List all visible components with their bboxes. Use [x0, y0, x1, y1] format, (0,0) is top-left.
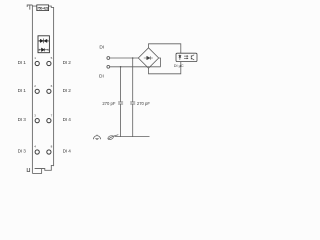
- svg-text:DI 4: DI 4: [63, 149, 72, 154]
- terminal circle DI 1: [107, 57, 110, 60]
- terminal circle DI 2: [107, 65, 110, 68]
- svg-text:DI 3: DI 3: [18, 117, 27, 122]
- rail contact symbol: [107, 135, 118, 141]
- wire DI2 up to bridge right: [159, 58, 161, 67]
- svg-text:DI 3: DI 3: [18, 149, 27, 154]
- opto-coupler U1 box: [176, 53, 197, 61]
- diode inside bridge: [144, 56, 153, 60]
- functional earth symbol: [93, 135, 100, 140]
- module DIN rail latch: [27, 168, 29, 172]
- svg-text:DI 1: DI 1: [18, 60, 27, 65]
- order number label box 750-423: [37, 5, 49, 11]
- capacitor C2 270 pF: [130, 58, 135, 137]
- svg-text:DI 2: DI 2: [63, 60, 72, 65]
- svg-text:DI 2: DI 2: [63, 88, 72, 93]
- module bottom foot profile: [32, 165, 53, 173]
- ground bar: [115, 136, 150, 138]
- terminal contact circles row 3: [35, 119, 51, 123]
- svg-text:750-423: 750-423: [37, 6, 48, 10]
- bridge rectifier B1: [138, 48, 158, 68]
- opto phototransistor: [191, 55, 194, 60]
- wire DI2 horizontal: [110, 66, 161, 68]
- channel labels left column: [18, 60, 27, 154]
- svg-text:DI 1: DI 1: [18, 88, 27, 93]
- terminal contact circles row 1: [35, 61, 51, 65]
- wire DI1 to bridge left: [110, 57, 139, 59]
- svg-text:DI 4: DI 4: [63, 117, 72, 122]
- svg-text:DI: DI: [99, 73, 104, 79]
- icon diode symbol: [39, 48, 48, 51]
- junction dot capacitor C2 tap: [132, 57, 134, 59]
- svg-text:DI: DI: [99, 45, 104, 51]
- wire bridge plus to opto top: [149, 44, 181, 53]
- opto LED: [179, 55, 181, 60]
- svg-text:270 pF: 270 pF: [137, 101, 150, 106]
- svg-text:DI µC: DI µC: [174, 64, 184, 68]
- terminal pin numbers left column: [34, 56, 36, 149]
- opto light arrows: [184, 55, 188, 59]
- terminal pin numbers right column: [51, 56, 53, 149]
- channel labels right column: [63, 60, 72, 154]
- module left mounting tab: [27, 5, 32, 10]
- junction dot capacitor C1 tap: [120, 66, 122, 68]
- wire bridge minus to opto bottom: [149, 62, 181, 74]
- terminal contact circles row 4: [35, 150, 51, 154]
- capacitor C1 270 pF: [118, 67, 123, 137]
- function icon box: [38, 36, 49, 53]
- terminal contact circles row 2: [35, 89, 51, 93]
- icon bidirectional diode symbol: [39, 39, 48, 44]
- module body outline: [32, 5, 53, 173]
- svg-text:270 pF: 270 pF: [102, 101, 115, 106]
